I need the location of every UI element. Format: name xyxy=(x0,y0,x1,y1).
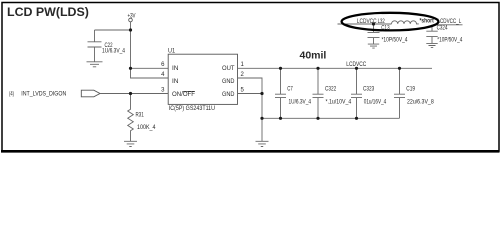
svg-text:OUT: OUT xyxy=(222,66,235,72)
svg-text:C324: C324 xyxy=(437,25,448,31)
svg-text:IC(5P) GS243T11U: IC(5P) GS243T11U xyxy=(169,106,215,112)
svg-text:1U/6.3V_4: 1U/6.3V_4 xyxy=(102,49,126,55)
svg-text:C7: C7 xyxy=(287,86,293,92)
svg-text:*10P/50V_4: *10P/50V_4 xyxy=(437,37,463,43)
svg-text:C322: C322 xyxy=(325,86,337,92)
svg-text:R31: R31 xyxy=(136,113,145,119)
svg-text:*.1u/10V_4: *.1u/10V_4 xyxy=(326,99,352,105)
svg-text:L32: L32 xyxy=(378,19,386,25)
svg-text:*10P/50V_4: *10P/50V_4 xyxy=(382,38,409,44)
svg-text:100K_4: 100K_4 xyxy=(137,125,156,131)
svg-text:U1: U1 xyxy=(168,49,176,55)
svg-text:GND: GND xyxy=(222,92,235,98)
svg-text:INT_LVDS_DIGON: INT_LVDS_DIGON xyxy=(21,91,66,97)
svg-text:22u/6.3V_8: 22u/6.3V_8 xyxy=(407,99,434,105)
svg-text:IN: IN xyxy=(172,66,179,72)
svg-text:(4): (4) xyxy=(9,91,14,97)
svg-text:40mil: 40mil xyxy=(300,50,327,62)
svg-text:LCD PW(LDS): LCD PW(LDS) xyxy=(7,5,89,19)
svg-text:01u/16V_4: 01u/16V_4 xyxy=(364,99,387,105)
svg-text:LCDVCC_L: LCDVCC_L xyxy=(438,19,462,25)
svg-text:1U/6.3V_4: 1U/6.3V_4 xyxy=(289,99,312,105)
svg-text:GND: GND xyxy=(222,79,235,85)
svg-text:IN: IN xyxy=(172,79,179,85)
svg-text:ON/OFF: ON/OFF xyxy=(172,92,195,98)
svg-text:*short: *short xyxy=(420,19,434,25)
svg-text:C19: C19 xyxy=(406,86,415,92)
svg-text:C323: C323 xyxy=(363,86,375,92)
